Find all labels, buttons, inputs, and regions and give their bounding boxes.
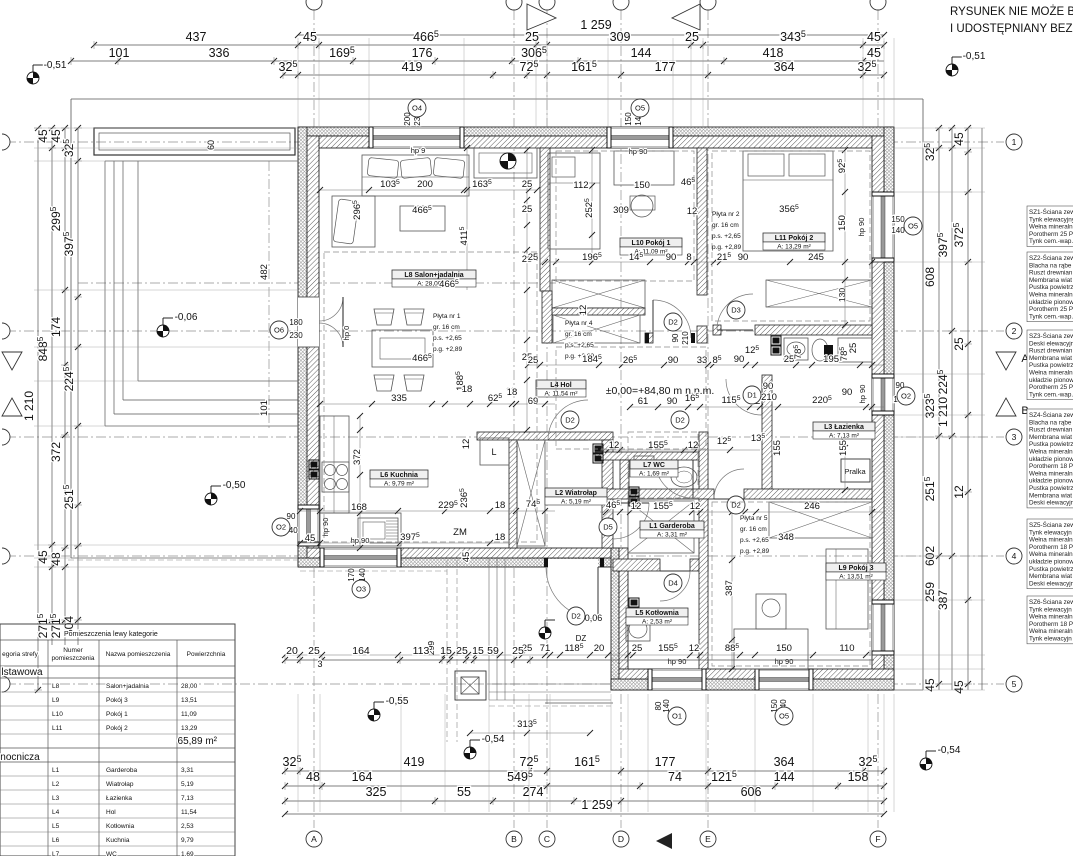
svg-text:90: 90 <box>671 333 680 342</box>
svg-text:-0,51: -0,51 <box>44 60 67 71</box>
svg-text:D2: D2 <box>571 612 581 621</box>
svg-text:SZ2-Ściana zew: SZ2-Ściana zew <box>1029 253 1073 262</box>
svg-text:O6: O6 <box>274 326 284 335</box>
svg-text:Wełna mineraln: Wełna mineraln <box>1029 449 1073 456</box>
svg-text:DZ: DZ <box>576 634 587 643</box>
svg-text:5: 5 <box>1012 679 1017 689</box>
svg-text:O2: O2 <box>276 523 286 532</box>
svg-text:155: 155 <box>838 440 849 456</box>
svg-text:L1: L1 <box>52 767 60 774</box>
svg-text:1 259: 1 259 <box>580 18 611 32</box>
svg-text:A: 1,69 m²: A: 1,69 m² <box>639 471 670 478</box>
svg-text:90: 90 <box>738 252 749 263</box>
svg-text:25: 25 <box>512 645 524 657</box>
svg-text:D: D <box>618 834 624 844</box>
svg-text:Pokój 3: Pokój 3 <box>106 697 128 704</box>
svg-text:A: 3,31 m²: A: 3,31 m² <box>657 532 688 539</box>
svg-text:Deski elewacyjn: Deski elewacyjn <box>1029 580 1073 587</box>
svg-text:D2: D2 <box>565 416 575 425</box>
svg-text:Wełna mineraln: Wełna mineraln <box>1029 537 1073 544</box>
svg-text:13,29: 13,29 <box>181 725 198 732</box>
svg-text:101: 101 <box>259 400 270 416</box>
svg-text:pomieszczenia: pomieszczenia <box>52 655 95 662</box>
svg-text:15: 15 <box>472 645 484 657</box>
svg-text:164: 164 <box>352 645 370 657</box>
svg-text:hp 90: hp 90 <box>668 657 687 666</box>
svg-text:419: 419 <box>402 60 423 74</box>
svg-text:113: 113 <box>413 645 430 657</box>
svg-text:Kotłownia: Kotłownia <box>106 823 135 830</box>
svg-text:B: B <box>511 834 517 844</box>
svg-text:90: 90 <box>666 252 677 263</box>
svg-text:150: 150 <box>776 643 792 654</box>
svg-text:O5: O5 <box>779 712 789 721</box>
svg-text:210: 210 <box>681 331 690 345</box>
svg-text:Porotherm 18 P: Porotherm 18 P <box>1029 621 1073 628</box>
svg-text:L7: L7 <box>52 851 60 856</box>
svg-text:12: 12 <box>631 501 642 512</box>
svg-text:Membrana wiat: Membrana wiat <box>1029 355 1072 362</box>
svg-text:Membrana wiat: Membrana wiat <box>1029 277 1072 284</box>
svg-text:O4: O4 <box>412 104 422 113</box>
svg-text:1: 1 <box>1012 137 1017 147</box>
svg-text:L4 Hol: L4 Hol <box>550 382 571 389</box>
svg-text:155: 155 <box>772 440 783 456</box>
svg-text:130: 130 <box>837 288 847 302</box>
svg-text:Tynk cem.-wap.: Tynk cem.-wap. <box>1029 238 1073 245</box>
svg-text:Salon+jadalnia: Salon+jadalnia <box>106 683 149 690</box>
svg-text:L1 Garderoba: L1 Garderoba <box>649 523 695 530</box>
svg-text:L2: L2 <box>52 781 60 788</box>
svg-text:-0,55: -0,55 <box>386 696 409 707</box>
svg-text:325: 325 <box>366 785 387 799</box>
svg-text:A: 7,13 m²: A: 7,13 m² <box>829 433 860 440</box>
svg-text:-0,51: -0,51 <box>963 51 986 62</box>
svg-text:348: 348 <box>778 532 794 543</box>
svg-text:D3: D3 <box>731 306 741 315</box>
svg-text:164: 164 <box>352 770 373 784</box>
svg-text:12: 12 <box>461 439 472 450</box>
svg-text:L11 Pokój 2: L11 Pokój 2 <box>775 235 814 242</box>
svg-text:hp 90: hp 90 <box>629 147 648 156</box>
svg-text:Porotherm 25 P: Porotherm 25 P <box>1029 384 1073 391</box>
svg-text:Wełna mineraln: Wełna mineraln <box>1029 614 1073 621</box>
svg-text:Pokój 1: Pokój 1 <box>106 711 128 718</box>
svg-text:61: 61 <box>638 396 649 407</box>
svg-text:12: 12 <box>609 440 620 451</box>
svg-text:170: 170 <box>347 568 356 582</box>
svg-text:SZ1-Ściana zew: SZ1-Ściana zew <box>1029 207 1073 216</box>
svg-text:E: E <box>705 834 711 844</box>
svg-text:150: 150 <box>837 215 848 231</box>
svg-text:egoria strefy: egoria strefy <box>2 651 39 658</box>
svg-text:45: 45 <box>867 30 881 44</box>
svg-text:48: 48 <box>306 770 320 784</box>
svg-text:3: 3 <box>317 659 322 669</box>
svg-text:364: 364 <box>774 60 795 74</box>
svg-text:158: 158 <box>848 770 869 784</box>
svg-text:Hol: Hol <box>106 809 116 816</box>
svg-text:hp 90: hp 90 <box>321 518 330 537</box>
svg-text:hp 90: hp 90 <box>351 536 370 545</box>
svg-text:25: 25 <box>848 343 859 354</box>
svg-text:p.g. +2,89: p.g. +2,89 <box>740 548 769 555</box>
svg-text:O5: O5 <box>635 104 645 113</box>
svg-text:O5: O5 <box>908 222 918 231</box>
svg-text:układzie pionow: układzie pionow <box>1029 299 1073 306</box>
svg-text:437: 437 <box>186 30 207 44</box>
svg-text:372: 372 <box>352 449 363 465</box>
svg-text:177: 177 <box>655 755 676 769</box>
svg-text:D1: D1 <box>747 391 757 400</box>
svg-text:246: 246 <box>804 501 820 512</box>
svg-text:SZ5-Ściana zew: SZ5-Ściana zew <box>1029 520 1073 529</box>
svg-text:hp 0: hp 0 <box>342 326 351 341</box>
svg-text:144: 144 <box>774 770 795 784</box>
svg-text:140: 140 <box>358 568 367 582</box>
svg-text:Deski elewacyjn: Deski elewacyjn <box>1029 500 1073 507</box>
svg-text:15: 15 <box>440 645 452 657</box>
svg-text:482: 482 <box>259 264 270 280</box>
svg-text:59: 59 <box>487 645 499 657</box>
svg-text:nocnicza: nocnicza <box>0 752 40 763</box>
svg-text:90: 90 <box>842 387 853 398</box>
svg-text:Kuchnia: Kuchnia <box>106 837 130 844</box>
svg-text:309: 309 <box>610 30 631 44</box>
svg-text:Tynk cem.-wap.: Tynk cem.-wap. <box>1029 391 1073 398</box>
svg-text:Pomieszczenia lewy kategorie: Pomieszczenia lewy kategorie <box>64 631 158 638</box>
svg-text:lstawowa: lstawowa <box>1 667 43 678</box>
svg-text:1 259: 1 259 <box>581 798 612 812</box>
svg-text:A: A <box>311 834 317 844</box>
svg-text:L7 WC: L7 WC <box>643 462 665 469</box>
svg-text:F: F <box>875 834 880 844</box>
svg-text:71: 71 <box>540 643 551 654</box>
svg-text:Płyta nr 5: Płyta nr 5 <box>740 515 768 522</box>
svg-text:25: 25 <box>685 30 699 44</box>
svg-text:A: 11,54 m²: A: 11,54 m² <box>544 391 578 398</box>
svg-text:418: 418 <box>763 46 784 60</box>
svg-text:Wełna mineraln: Wełna mineraln <box>1029 628 1073 635</box>
svg-text:55: 55 <box>457 785 471 799</box>
svg-text:D2: D2 <box>675 416 685 425</box>
svg-text:419: 419 <box>404 755 425 769</box>
svg-text:18: 18 <box>495 500 506 511</box>
svg-text:90: 90 <box>667 396 678 407</box>
svg-text:5,19: 5,19 <box>181 781 194 788</box>
svg-text:Ruszt drewnian: Ruszt drewnian <box>1029 348 1073 355</box>
svg-text:Wiatrołap: Wiatrołap <box>106 781 134 788</box>
svg-text:18: 18 <box>507 387 518 398</box>
svg-text:18: 18 <box>462 384 473 395</box>
svg-text:Porotherm 18 P: Porotherm 18 P <box>1029 463 1073 470</box>
svg-text:48: 48 <box>49 552 63 566</box>
svg-text:Membrana wiat: Membrana wiat <box>1029 573 1072 580</box>
svg-text:336: 336 <box>209 46 230 60</box>
svg-text:Wełna mineraln: Wełna mineraln <box>1029 292 1073 299</box>
svg-text:150: 150 <box>634 180 650 191</box>
svg-text:372: 372 <box>49 442 63 462</box>
svg-text:4: 4 <box>1012 551 1017 561</box>
svg-text:hp 9: hp 9 <box>411 146 426 155</box>
svg-text:45: 45 <box>461 552 472 563</box>
svg-text:A: 2,53 m²: A: 2,53 m² <box>642 619 673 626</box>
svg-text:230: 230 <box>289 331 303 340</box>
svg-text:112: 112 <box>573 180 588 191</box>
svg-text:Ruszt drewnian: Ruszt drewnian <box>1029 427 1073 434</box>
svg-text:8: 8 <box>686 252 691 263</box>
svg-text:Powierzchnia: Powierzchnia <box>187 651 226 658</box>
svg-text:45: 45 <box>303 30 317 44</box>
svg-text:25: 25 <box>308 645 320 657</box>
svg-text:20: 20 <box>594 643 605 654</box>
svg-text:hp 90: hp 90 <box>858 385 867 404</box>
svg-text:12: 12 <box>687 206 698 217</box>
svg-text:245: 245 <box>808 252 824 263</box>
svg-text:D2: D2 <box>668 318 678 327</box>
svg-text:608: 608 <box>923 267 937 287</box>
svg-text:25: 25 <box>522 204 533 215</box>
svg-text:Membrana wiat: Membrana wiat <box>1029 434 1072 441</box>
svg-text:hp 90: hp 90 <box>857 218 866 237</box>
svg-text:L5 Kotłownia: L5 Kotłownia <box>635 610 679 617</box>
svg-text:45: 45 <box>36 550 50 564</box>
svg-text:101: 101 <box>109 46 130 60</box>
svg-text:O1: O1 <box>672 712 682 721</box>
svg-text:28,00: 28,00 <box>181 683 198 690</box>
svg-text:1,69: 1,69 <box>181 851 194 856</box>
svg-text:11,54: 11,54 <box>181 809 197 816</box>
svg-text:-0,54: -0,54 <box>482 734 505 745</box>
svg-text:274: 274 <box>523 785 544 799</box>
svg-text:45: 45 <box>305 533 316 544</box>
svg-text:O2: O2 <box>901 392 911 401</box>
svg-text:Tynk cem.-wap.: Tynk cem.-wap. <box>1029 313 1073 320</box>
svg-text:p.s. +2,65: p.s. +2,65 <box>740 537 769 544</box>
svg-text:A: 13,29 m²: A: 13,29 m² <box>777 244 811 251</box>
svg-text:45: 45 <box>36 129 50 143</box>
svg-text:309: 309 <box>613 205 629 216</box>
svg-text:Blacha na rąbe: Blacha na rąbe <box>1029 419 1072 426</box>
svg-text:Pustka powietrz: Pustka powietrz <box>1029 566 1073 573</box>
svg-text:Blacha na rąbe: Blacha na rąbe <box>1029 262 1072 269</box>
svg-text:90: 90 <box>668 355 679 366</box>
svg-text:Deski elewacyjn: Deski elewacyjn <box>1029 340 1073 347</box>
svg-text:335: 335 <box>391 393 407 404</box>
svg-text:p.s. +2,65: p.s. +2,65 <box>565 342 594 349</box>
svg-text:WC: WC <box>106 851 117 856</box>
svg-text:90: 90 <box>287 512 296 521</box>
svg-text:p.s. +2,65: p.s. +2,65 <box>712 233 741 240</box>
svg-text:Ruszt drewnian: Ruszt drewnian <box>1029 270 1073 277</box>
svg-text:układzie pionow: układzie pionow <box>1029 377 1073 384</box>
svg-text:Numer: Numer <box>63 647 83 654</box>
svg-text:p.g. +2,89: p.g. +2,89 <box>433 346 462 353</box>
svg-text:Pralka: Pralka <box>844 467 866 476</box>
svg-text:L2 Wiatrołap: L2 Wiatrołap <box>555 490 597 497</box>
svg-text:gr. 16 cm: gr. 16 cm <box>433 324 460 331</box>
svg-text:gr. 16 cm: gr. 16 cm <box>565 331 592 338</box>
svg-text:układzie pionow: układzie pionow <box>1029 559 1073 566</box>
svg-text:Wełna mineraln: Wełna mineraln <box>1029 551 1073 558</box>
svg-text:2,53: 2,53 <box>181 823 194 830</box>
svg-text:Płyta nr 1: Płyta nr 1 <box>433 313 461 320</box>
svg-text:150: 150 <box>891 215 905 224</box>
svg-text:65,89 m²: 65,89 m² <box>178 736 218 747</box>
svg-text:259: 259 <box>923 582 937 602</box>
svg-text:13,51: 13,51 <box>181 697 198 704</box>
svg-text:Membrana wiat: Membrana wiat <box>1029 492 1072 499</box>
svg-text:A: 5,19 m²: A: 5,19 m² <box>561 499 592 506</box>
svg-text:Garderoba: Garderoba <box>106 767 137 774</box>
svg-text:hp 90: hp 90 <box>775 657 794 666</box>
svg-text:L8: L8 <box>52 683 60 690</box>
svg-text:140: 140 <box>891 226 905 235</box>
svg-text:12: 12 <box>689 643 700 654</box>
svg-text:-0,54: -0,54 <box>938 745 961 756</box>
svg-text:Płyta nr 4: Płyta nr 4 <box>565 320 593 327</box>
svg-text:45: 45 <box>952 680 966 694</box>
svg-text:606: 606 <box>741 785 762 799</box>
svg-text:2: 2 <box>1012 326 1017 336</box>
svg-text:174: 174 <box>49 317 63 337</box>
svg-text:L3: L3 <box>52 795 60 802</box>
svg-text:Pustka powietrz: Pustka powietrz <box>1029 284 1073 291</box>
svg-text:gr. 16 cm: gr. 16 cm <box>740 526 767 533</box>
svg-text:D4: D4 <box>668 579 678 588</box>
svg-text:układzie pionow: układzie pionow <box>1029 478 1073 485</box>
svg-text:L4: L4 <box>52 809 60 816</box>
svg-text:25: 25 <box>522 179 533 190</box>
svg-text:177: 177 <box>655 60 676 74</box>
svg-text:200: 200 <box>417 179 433 190</box>
svg-text:45: 45 <box>923 678 937 692</box>
svg-text:A: 9,79 m²: A: 9,79 m² <box>384 481 415 488</box>
svg-text:3,31: 3,31 <box>181 767 194 774</box>
svg-text:9,79: 9,79 <box>181 837 194 844</box>
svg-text:L9 Pokój 3: L9 Pokój 3 <box>838 565 873 572</box>
svg-text:L10: L10 <box>52 711 63 718</box>
svg-text:Tynk elewacyjn: Tynk elewacyjn <box>1029 606 1072 613</box>
svg-text:168: 168 <box>351 502 367 513</box>
svg-text:L5: L5 <box>52 823 60 830</box>
svg-text:I UDOSTĘPNIANY BEZ ZG: I UDOSTĘPNIANY BEZ ZG <box>950 23 1073 35</box>
svg-text:Tynk elewacyjny: Tynk elewacyjny <box>1029 216 1073 223</box>
svg-text:Płyta nr 2: Płyta nr 2 <box>712 211 740 218</box>
svg-text:ZM: ZM <box>453 527 467 538</box>
svg-text:L: L <box>491 447 496 457</box>
svg-text:7,13: 7,13 <box>181 795 194 802</box>
svg-text:Porotherm 25 P: Porotherm 25 P <box>1029 306 1073 313</box>
svg-text:364: 364 <box>774 755 795 769</box>
svg-text:L9: L9 <box>52 697 60 704</box>
svg-text:RYSUNEK NIE MOŻE BYĆ: RYSUNEK NIE MOŻE BYĆ <box>950 5 1073 18</box>
svg-text:25: 25 <box>456 645 468 657</box>
svg-text:90: 90 <box>763 381 774 392</box>
svg-text:Pustka powietrz: Pustka powietrz <box>1029 441 1073 448</box>
svg-text:Wełna mineraln: Wełna mineraln <box>1029 224 1073 231</box>
svg-text:Wełna mineraln: Wełna mineraln <box>1029 470 1073 477</box>
svg-text:L3 Łazienka: L3 Łazienka <box>824 424 864 431</box>
svg-text:-0,06: -0,06 <box>175 312 198 323</box>
svg-text:210: 210 <box>761 392 777 403</box>
svg-text:L8 Salon+jadalnia: L8 Salon+jadalnia <box>404 272 463 279</box>
svg-text:Pustka powietrz: Pustka powietrz <box>1029 362 1073 369</box>
svg-text:p.s. +2,65: p.s. +2,65 <box>433 335 462 342</box>
svg-text:SZ3-Ściana zew: SZ3-Ściana zew <box>1029 331 1073 340</box>
svg-text:Pustka powietrz: Pustka powietrz <box>1029 485 1073 492</box>
svg-text:O3: O3 <box>356 585 366 594</box>
svg-text:L10 Pokój 1: L10 Pokój 1 <box>632 240 671 247</box>
svg-text:C: C <box>544 834 550 844</box>
svg-text:1 210: 1 210 <box>936 397 950 427</box>
svg-text:-0,50: -0,50 <box>223 480 246 491</box>
svg-text:gr. 16 cm: gr. 16 cm <box>712 222 739 229</box>
svg-text:Łazienka: Łazienka <box>106 795 132 802</box>
svg-text:144: 144 <box>631 46 652 60</box>
svg-text:110: 110 <box>839 643 854 654</box>
svg-text:45: 45 <box>952 132 966 146</box>
svg-text:11,09: 11,09 <box>181 711 197 718</box>
svg-text:12: 12 <box>578 305 589 316</box>
svg-text:387: 387 <box>724 580 735 596</box>
svg-text:Wełna mineraln: Wełna mineraln <box>1029 370 1073 377</box>
svg-text:74: 74 <box>668 770 682 784</box>
svg-text:układzie pionow: układzie pionow <box>1029 456 1073 463</box>
svg-text:18: 18 <box>495 532 506 543</box>
svg-text:90: 90 <box>734 354 745 365</box>
svg-text:3: 3 <box>1012 432 1017 442</box>
svg-text:D5: D5 <box>603 523 613 532</box>
svg-text:20: 20 <box>286 645 298 657</box>
svg-text:12: 12 <box>690 501 701 512</box>
svg-text:150: 150 <box>624 112 633 126</box>
svg-text:12: 12 <box>688 440 699 451</box>
svg-text:Nazwa pomieszczenia: Nazwa pomieszczenia <box>106 651 171 658</box>
svg-text:45: 45 <box>867 46 881 60</box>
svg-text:25: 25 <box>632 643 643 654</box>
svg-text:L6: L6 <box>52 837 60 844</box>
svg-text:SZ4-Ściana zew: SZ4-Ściana zew <box>1029 410 1073 419</box>
svg-text:A: 13,51 m²: A: 13,51 m² <box>839 574 873 581</box>
svg-text:60: 60 <box>206 140 216 150</box>
svg-text:L6 Kuchnia: L6 Kuchnia <box>380 472 418 479</box>
svg-text:SZ6-Ściana zew: SZ6-Ściana zew <box>1029 597 1073 606</box>
svg-text:12: 12 <box>952 485 966 499</box>
svg-text:180: 180 <box>289 318 303 327</box>
svg-text:Pokój 2: Pokój 2 <box>106 725 128 732</box>
svg-text:25: 25 <box>525 30 539 44</box>
svg-text:1 210: 1 210 <box>22 391 36 421</box>
svg-text:Porotherm 18 P: Porotherm 18 P <box>1029 544 1073 551</box>
svg-text:Tynk elewacyjn: Tynk elewacyjn <box>1029 636 1072 643</box>
svg-text:176: 176 <box>412 46 433 60</box>
svg-text:Porotherm 25 P: Porotherm 25 P <box>1029 231 1073 238</box>
svg-text:p.g. +2,89: p.g. +2,89 <box>712 244 741 251</box>
svg-text:25: 25 <box>952 337 966 351</box>
svg-text:Tynk elewacyjn: Tynk elewacyjn <box>1029 529 1072 536</box>
svg-text:L11: L11 <box>52 725 63 732</box>
